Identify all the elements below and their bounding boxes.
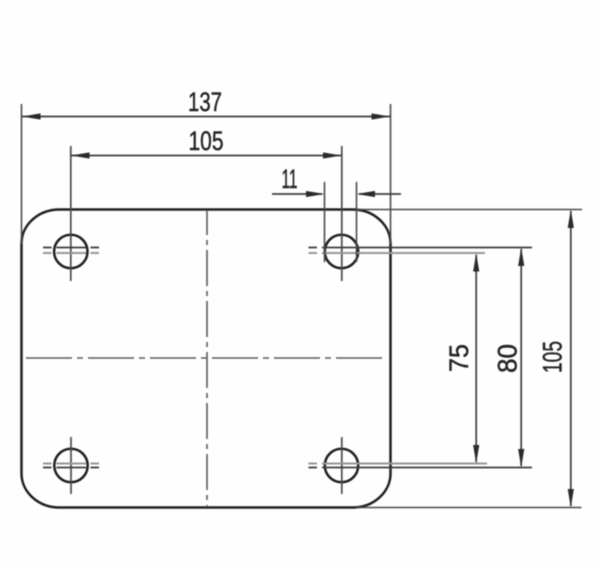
dim 105 line bbox=[71, 155, 342, 157]
hole BR dark horizontal centerline + extension to dim 80 bbox=[309, 467, 533, 469]
hole BL gray horizontal line (ref for dim 75) bbox=[43, 463, 99, 465]
dim 11 right tail line bbox=[359, 193, 401, 195]
hole TR bbox=[325, 235, 358, 268]
dim 11 right arrowhead bbox=[357, 191, 376, 197]
dim 11 left extension line bbox=[324, 182, 326, 262]
dim 80 top arrowhead bbox=[518, 248, 524, 267]
horizontal plate centerline bbox=[26, 357, 386, 359]
hole TL bbox=[54, 235, 87, 268]
dim 75 top arrowhead bbox=[473, 253, 479, 272]
vertical centerline hole TL (extension of dim 105) bbox=[70, 146, 72, 281]
dim 105 right arrowhead bbox=[323, 152, 342, 158]
svg-text:75: 75 bbox=[444, 344, 474, 372]
dim 11 right extension line bbox=[356, 182, 358, 262]
vertical centerline hole BL bbox=[70, 437, 72, 494]
dim 137 right extension line bbox=[390, 104, 392, 244]
dim 75 bottom arrowhead bbox=[473, 445, 479, 464]
vertical plate centerline bbox=[206, 211, 208, 507]
vertical centerline hole BR bbox=[341, 437, 343, 494]
dim 137 left extension line bbox=[21, 104, 23, 244]
dim 105 right bottom arrowhead bbox=[568, 489, 574, 508]
dim 137 line bbox=[22, 116, 390, 118]
plate outline bbox=[22, 210, 391, 508]
hole BL dark horizontal centerline (ref for dim 80) bbox=[43, 467, 99, 469]
dim 137 left arrowhead bbox=[22, 113, 41, 119]
dim 105 left arrowhead bbox=[71, 152, 90, 158]
dim 105 right top arrowhead bbox=[568, 210, 574, 229]
dim 11 left tail line bbox=[272, 193, 322, 195]
dim 80 line bbox=[520, 249, 522, 466]
svg-text:137: 137 bbox=[188, 87, 222, 117]
svg-text:105: 105 bbox=[189, 126, 224, 156]
vertical centerline hole TR (extension of dim 105) bbox=[341, 146, 343, 281]
dim 105 bottom extension line (plate bottom edge extended) bbox=[356, 507, 582, 509]
dim 105 top extension line (plate top edge extended) bbox=[356, 209, 582, 211]
hole TR gray horizontal line + extension to dim 75 bbox=[309, 252, 486, 254]
hole TR dark horizontal centerline + extension to dim 80 bbox=[309, 247, 533, 249]
dim 11 left arrowhead bbox=[306, 191, 325, 197]
hole BR gray horizontal line + extension to dim 75 bbox=[309, 463, 488, 465]
dim 80 bottom arrowhead bbox=[518, 449, 524, 468]
svg-text:11: 11 bbox=[282, 164, 298, 194]
hole BL bbox=[54, 449, 87, 482]
hole BR bbox=[325, 449, 358, 482]
svg-text:105: 105 bbox=[538, 341, 568, 373]
hole TL dark horizontal centerline (ref for dim 80) bbox=[43, 247, 99, 249]
dim 105 right line bbox=[570, 211, 572, 506]
svg-text:80: 80 bbox=[493, 344, 523, 373]
dim 75 line bbox=[475, 255, 477, 462]
dim 137 right arrowhead bbox=[372, 113, 391, 119]
hole TL gray horizontal line (ref for dim 75) bbox=[43, 252, 99, 254]
